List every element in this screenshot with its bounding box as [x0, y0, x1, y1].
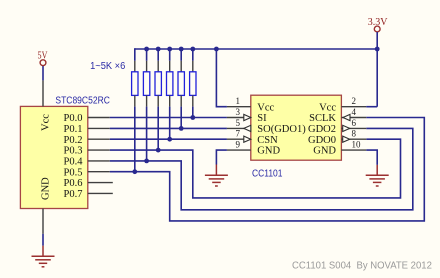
svg-text:SCLK: SCLK — [309, 113, 336, 124]
svg-text:STC89C52RC: STC89C52RC — [55, 95, 110, 106]
svg-text:7: 7 — [236, 129, 241, 139]
svg-text:3.3V: 3.3V — [368, 17, 388, 28]
svg-text:GND: GND — [257, 146, 280, 157]
svg-text:GDO0: GDO0 — [308, 135, 336, 146]
svg-text:P0.1: P0.1 — [64, 124, 83, 135]
svg-text:GDO2: GDO2 — [308, 124, 336, 135]
svg-text:SO(GDO1): SO(GDO1) — [257, 124, 306, 135]
svg-text:5: 5 — [236, 118, 241, 128]
svg-text:P0.4: P0.4 — [64, 157, 84, 168]
svg-text:Vcc: Vcc — [319, 102, 336, 113]
svg-text:P0.5: P0.5 — [64, 167, 83, 178]
svg-text:CSN: CSN — [257, 135, 278, 146]
svg-text:2: 2 — [352, 96, 357, 106]
svg-text:SI: SI — [257, 113, 267, 124]
svg-text:P0.2: P0.2 — [64, 135, 83, 146]
svg-text:1: 1 — [236, 96, 241, 106]
svg-text:8: 8 — [352, 129, 357, 139]
svg-text:Vcc: Vcc — [40, 114, 51, 131]
svg-text:CC1101: CC1101 — [252, 168, 283, 179]
svg-text:4: 4 — [352, 107, 357, 117]
svg-text:Vcc: Vcc — [257, 102, 274, 113]
svg-text:GND: GND — [313, 146, 336, 157]
svg-text:5V: 5V — [38, 50, 49, 61]
svg-text:GND: GND — [40, 177, 51, 200]
svg-text:P0.0: P0.0 — [64, 113, 83, 124]
svg-text:6: 6 — [352, 118, 357, 128]
svg-text:P0.6: P0.6 — [64, 178, 83, 189]
svg-text:CC1101 S004 By NOVATE 2012: CC1101 S004 By NOVATE 2012 — [292, 260, 432, 271]
svg-text:P0.7: P0.7 — [64, 189, 83, 200]
svg-text:1~5K ×6: 1~5K ×6 — [90, 61, 126, 72]
svg-text:3: 3 — [236, 107, 241, 117]
svg-text:P0.3: P0.3 — [64, 146, 83, 157]
svg-text:9: 9 — [236, 140, 241, 150]
svg-text:10: 10 — [352, 140, 362, 150]
